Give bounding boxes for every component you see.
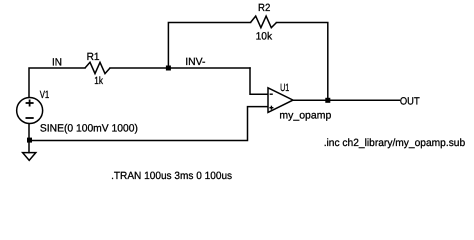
svg-text:R1: R1 — [87, 51, 100, 63]
svg-text:SINE(0 100mV 1000): SINE(0 100mV 1000) — [40, 123, 138, 135]
svg-text:.TRAN 100us 3ms 0 100us: .TRAN 100us 3ms 0 100us — [111, 170, 232, 182]
svg-text:10k: 10k — [256, 30, 273, 42]
svg-text:U1: U1 — [280, 82, 289, 94]
svg-text:OUT: OUT — [400, 96, 420, 108]
svg-text:INV-: INV- — [185, 56, 206, 68]
svg-text:R2: R2 — [258, 2, 271, 14]
svg-text:V1: V1 — [40, 89, 50, 101]
svg-text:IN: IN — [52, 57, 62, 69]
svg-text:my_opamp: my_opamp — [279, 109, 331, 121]
svg-text:.inc ch2_library/my_opamp.sub: .inc ch2_library/my_opamp.sub — [324, 137, 466, 149]
svg-text:1k: 1k — [94, 75, 103, 87]
